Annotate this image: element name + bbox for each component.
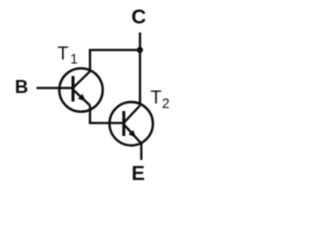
transistor T1 circle [59,68,102,111]
svg-text:B: B [15,76,28,97]
svg-text:2: 2 [162,96,170,111]
T2 emitter arrowhead [129,130,137,138]
svg-text:C: C [131,6,146,29]
transistor T2 circle [110,102,153,145]
T2 collector diagonal [124,106,140,123]
wire from T2 emitter corner down to E terminal [140,144,142,161]
svg-text:1: 1 [70,52,78,67]
T2 base bar [122,111,125,136]
svg-text:T: T [151,87,162,107]
wire from junction node left then down to T1 collector corner [90,50,140,71]
T1 emitter arrowhead [78,94,86,102]
wire from B terminal to T1 base bar [37,87,72,89]
T1 emitter diagonal [73,90,90,106]
T1 base bar [72,76,75,102]
wire from T1 emitter down then right to T2 base bar [90,105,123,123]
svg-text:E: E [132,163,145,185]
wire from C terminal down through junction node to T2 collector [139,33,141,106]
T2 emitter diagonal [124,124,142,143]
T1 collector diagonal [73,71,90,88]
junction node dot [137,47,143,53]
svg-text:T: T [57,43,68,63]
